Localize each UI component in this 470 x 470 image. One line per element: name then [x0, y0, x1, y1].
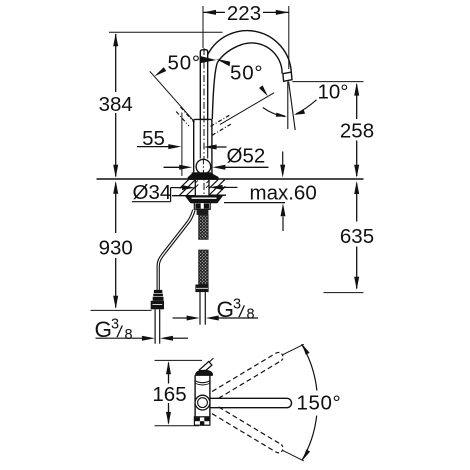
dim 635 extension line bottom — [324, 292, 364, 294]
svg-text:223: 223 — [227, 2, 261, 25]
dim 635 dimension line — [354, 181, 359, 290]
50° right tilt axis line — [220, 93, 274, 125]
swivel 150° arc — [302, 344, 317, 461]
dim max.60 label — [250, 182, 317, 205]
swivel upper extension line — [283, 344, 304, 354]
supply hose crimp collar — [195, 285, 208, 293]
dim 55 right arrow — [204, 145, 227, 150]
svg-text:384: 384 — [99, 93, 133, 116]
50° left label — [168, 52, 201, 75]
50° left tilt axis line — [150, 71, 195, 122]
handle stick right wall — [207, 55, 209, 119]
spout outer curve — [208, 31, 292, 73]
dim 55 dimension line — [137, 144, 181, 149]
spout inner to body — [212, 63, 217, 120]
aerator — [283, 72, 292, 81]
dim 223 dimension line — [203, 10, 289, 15]
dim 258 extension line top — [292, 81, 363, 83]
counter bottom line — [172, 194, 226, 197]
dim max.60 underline — [224, 202, 285, 204]
supply hose end pipe — [200, 292, 205, 325]
dim 635 label — [340, 225, 374, 248]
dim 165 label — [152, 383, 186, 406]
counter hatching left — [180, 179, 196, 195]
top view lever dome — [196, 371, 212, 376]
10° curved leader left — [263, 108, 287, 117]
50° right leader arrow — [259, 85, 268, 96]
handle circle — [196, 159, 211, 174]
10° label — [318, 81, 349, 104]
dim Ø34 leader — [132, 185, 195, 202]
svg-text:50°: 50° — [168, 52, 201, 75]
dim 223 extension line left — [202, 6, 204, 48]
braided hose lower segment — [199, 250, 208, 284]
stream tilted line — [289, 82, 296, 131]
dim 930 extension line bottom — [91, 309, 152, 311]
top view lever knob — [199, 358, 213, 373]
svg-text:G: G — [95, 317, 113, 342]
pull-out hose end pipe — [155, 309, 160, 343]
braided hose upper segment — [199, 215, 208, 239]
dim G3/8 left line — [96, 336, 189, 341]
dim 930 label — [99, 237, 133, 260]
swivel position dashed lower — [212, 407, 283, 453]
svg-text:930: 930 — [99, 237, 133, 260]
counter hatching right — [209, 179, 225, 195]
dim 223 extension line right — [288, 6, 290, 69]
dim max.60 lower arrow — [281, 203, 286, 231]
top view body — [195, 375, 212, 417]
stream plumb line — [287, 82, 289, 130]
dim Ø34 label — [133, 181, 172, 204]
dim 384 extension line top — [109, 31, 223, 33]
top view spout bar — [210, 398, 292, 407]
50° right label — [230, 61, 263, 84]
svg-text:G: G — [217, 297, 235, 322]
svg-text:10°: 10° — [318, 81, 349, 104]
body collar — [192, 172, 213, 174]
dim 165 extension line top — [155, 359, 203, 361]
mounting shank — [195, 180, 209, 196]
top view base checker block — [194, 417, 210, 425]
dim 930 dimension line — [113, 181, 118, 309]
dim max.60 upper arrow — [280, 152, 285, 178]
dim 384 dimension line — [113, 33, 118, 178]
dim 384 label — [99, 93, 133, 116]
svg-text:165: 165 — [152, 383, 186, 406]
braid crimp top — [197, 209, 209, 215]
handle tilted right (dash-dot) — [211, 115, 231, 135]
svg-text:258: 258 — [340, 119, 374, 142]
svg-text:55: 55 — [142, 127, 165, 150]
top view pivot circle outer — [195, 395, 210, 410]
svg-text:max.60: max.60 — [250, 182, 317, 205]
svg-text:Ø34: Ø34 — [133, 181, 172, 204]
dim G3/8 left label — [95, 317, 133, 343]
body inner lines — [200, 119, 207, 158]
dim G3/8 right line — [173, 316, 259, 321]
spout inner curve — [217, 43, 282, 74]
countertop line — [97, 178, 364, 180]
svg-text:635: 635 — [340, 225, 374, 248]
10° curved leader right — [294, 100, 317, 115]
50° left leader arrow — [154, 67, 166, 76]
handle stick — [200, 50, 207, 120]
body outline — [194, 119, 212, 172]
pull-out hose — [157, 210, 195, 291]
mounting nut — [186, 196, 222, 203]
top view pivot circle inner — [198, 398, 208, 408]
dim 258 dimension line — [354, 83, 359, 178]
dim Ø52 label — [227, 145, 266, 168]
dim 55 label — [142, 127, 165, 150]
pull-out hose fitting — [153, 290, 164, 301]
dim max.60 leader — [210, 185, 238, 190]
svg-text:8: 8 — [247, 307, 255, 323]
dim 165 dimension line — [166, 361, 171, 425]
dim 150° label — [297, 391, 342, 414]
50° opposing arrows at spout — [201, 56, 230, 66]
dim Ø52 arrows — [164, 165, 269, 170]
swivel position dashed upper — [212, 352, 283, 398]
hose connection block — [194, 203, 210, 210]
svg-text:150°: 150° — [297, 391, 342, 414]
handle tilted left (dash-dot) — [176, 107, 193, 126]
body top edge — [200, 118, 207, 120]
dim 165 extension line bottom — [155, 425, 200, 427]
svg-text:Ø52: Ø52 — [227, 145, 266, 168]
dim G3/8 right label — [217, 297, 255, 323]
swivel lower extension line — [283, 451, 304, 461]
escutcheon base — [188, 175, 218, 180]
top view body ring — [195, 381, 209, 385]
dim 258 label — [340, 119, 374, 142]
faucet centerline (axis) — [203, 48, 205, 213]
svg-text:50°: 50° — [230, 61, 263, 84]
pull-out hose nut — [151, 301, 164, 310]
shank thread marks — [195, 181, 209, 188]
dim 55 extension line — [181, 113, 183, 177]
svg-text:8: 8 — [125, 327, 133, 343]
dim 223 label — [227, 2, 261, 25]
